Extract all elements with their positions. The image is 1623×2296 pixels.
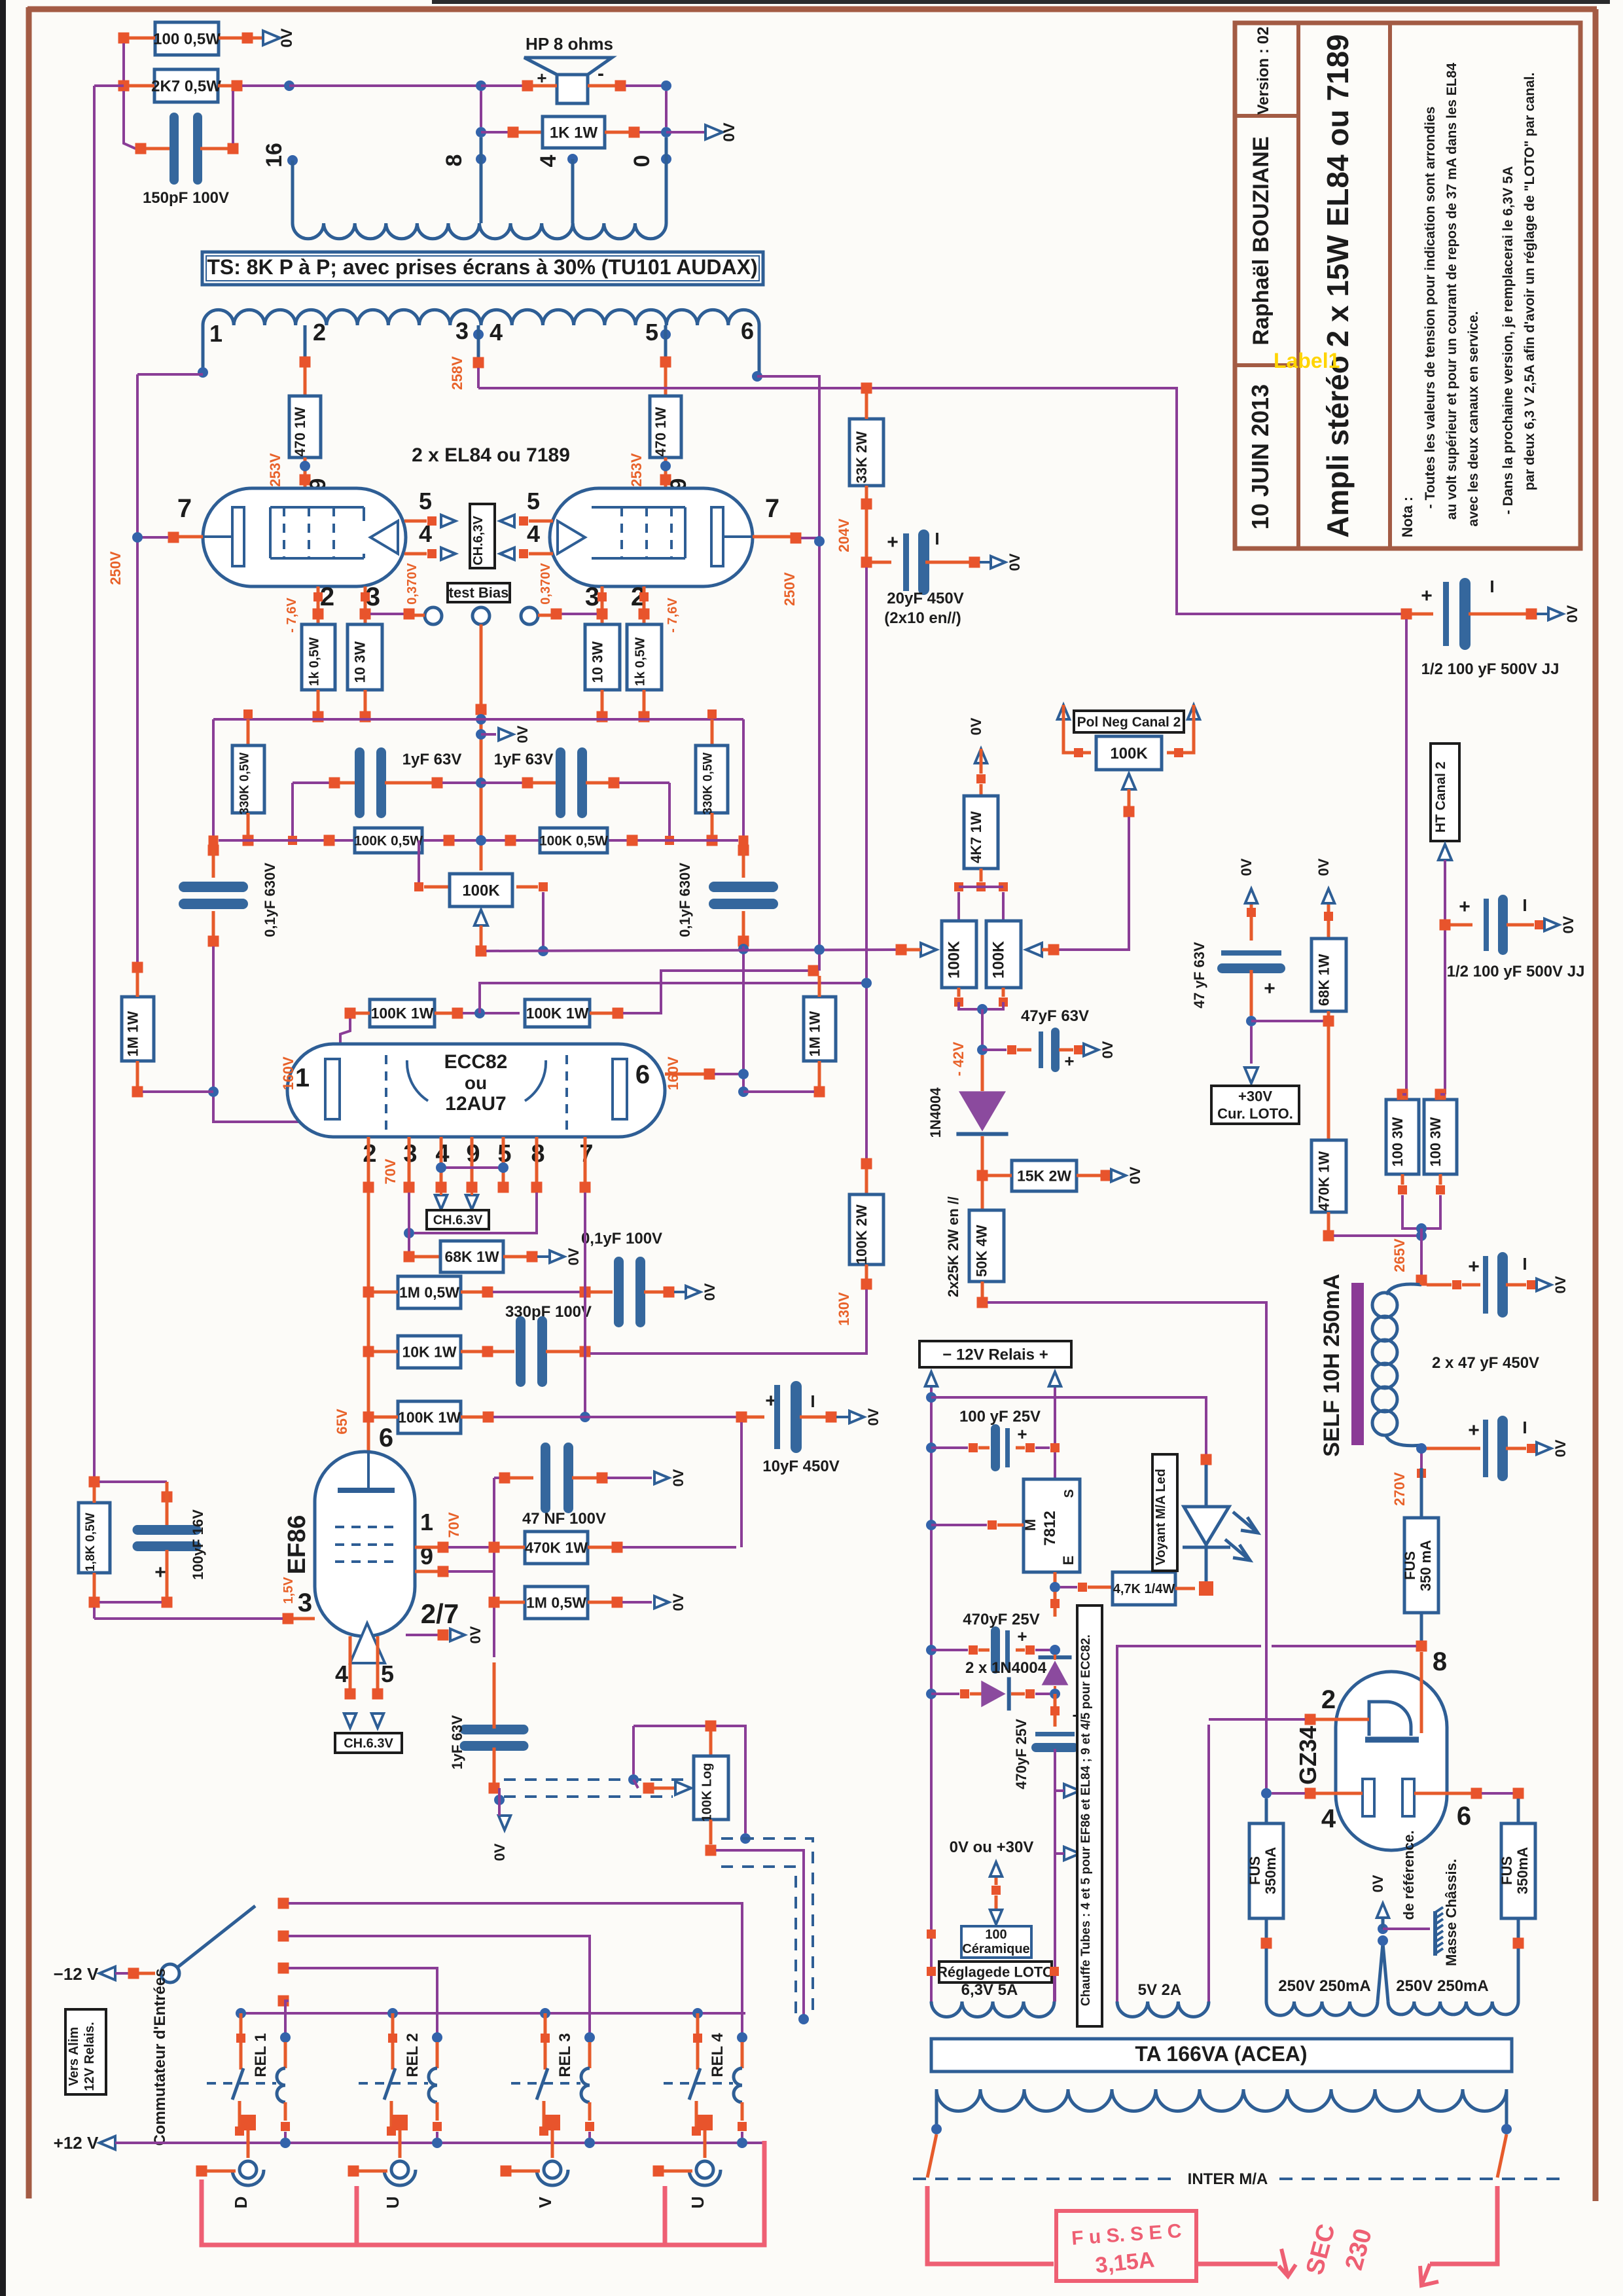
- arrow HT up: [1438, 844, 1452, 860]
- svg-text:100K: 100K: [946, 941, 963, 978]
- wire: [1327, 1026, 1330, 1140]
- wire: [415, 1546, 438, 1549]
- junction: [969, 557, 980, 568]
- node: [584, 2032, 595, 2043]
- junction: [1398, 1185, 1407, 1194]
- wire grid row: [219, 839, 738, 842]
- wire pin8 gz34: [1420, 1652, 1423, 1733]
- junction: [1050, 1967, 1059, 1976]
- node: [1416, 1443, 1427, 1454]
- wire: [747, 1416, 764, 1419]
- svg-text:0V: 0V: [670, 1469, 687, 1486]
- svg-text:1K 1W: 1K 1W: [550, 124, 598, 141]
- arrow 0V 68K: [1323, 889, 1334, 903]
- junction: [692, 2126, 701, 2136]
- wire center tap: [1378, 1943, 1383, 2001]
- wire: [709, 1731, 713, 1756]
- wire: [139, 1972, 155, 1975]
- junction: [1416, 1641, 1427, 1652]
- tube GZ34 filament a: [1363, 1779, 1374, 1816]
- junction: [278, 1996, 289, 2007]
- junction: [1471, 1788, 1482, 1799]
- wire pin7 left rail: [136, 374, 139, 967]
- wire bias center: [480, 624, 483, 870]
- junction: [313, 711, 324, 723]
- wire: [542, 892, 544, 951]
- node: [494, 1795, 505, 1805]
- wire: [801, 537, 819, 539]
- shield dashed d: [721, 1867, 796, 2015]
- pink annotation right: [1430, 2186, 1497, 2264]
- wire: [668, 783, 671, 840]
- capacitor 1yF 63V R: [556, 747, 587, 818]
- wire center tap b: [1383, 1943, 1388, 2001]
- wire: [988, 1174, 1012, 1177]
- svg-text:68K 1W: 68K 1W: [1316, 954, 1332, 1006]
- wire 5V left rail: [1116, 1645, 1118, 2001]
- wire: [836, 1416, 848, 1418]
- svg-text:1M 1W: 1M 1W: [807, 1011, 823, 1057]
- svg-text:1k 0,5W: 1k 0,5W: [633, 637, 648, 687]
- svg-text:5: 5: [381, 1660, 394, 1687]
- wire: [129, 84, 154, 88]
- wire heater dc rail: [1054, 1749, 1056, 2001]
- wire: [562, 613, 597, 615]
- svg-text:100 0,5W: 100 0,5W: [153, 30, 221, 48]
- junction: [162, 1597, 173, 1608]
- junction: [969, 1645, 978, 1655]
- resistor 1,8K 0,5W: [79, 1503, 110, 1573]
- tube ECC82 plate left: [325, 1059, 340, 1119]
- capacitor 20yF 450V: [903, 529, 929, 595]
- svg-text:258V: 258V: [449, 356, 465, 390]
- junction: [1401, 609, 1412, 620]
- junction: [240, 2115, 256, 2130]
- tube ECC82 grid left: [385, 1055, 387, 1132]
- wire: [997, 1524, 1024, 1527]
- svg-text:2K7 0,5W: 2K7 0,5W: [151, 77, 221, 95]
- junction: [208, 845, 219, 856]
- junction: [519, 549, 528, 558]
- wire 470K to 10yF rail: [622, 1546, 736, 1549]
- arrow to heaters 2: [1064, 1847, 1080, 1860]
- svg-text:350mA: 350mA: [1514, 1847, 1531, 1894]
- wire relay top bus: [241, 2012, 745, 2015]
- svg-text:−12 V: −12 V: [54, 1964, 99, 1984]
- wire: [695, 2101, 698, 2127]
- resistor 50K 4W: [969, 1210, 1004, 1282]
- node: [300, 461, 310, 471]
- arrow into pot left: [921, 943, 936, 956]
- input jack 4: [689, 2161, 721, 2185]
- transformer TS label box: [202, 252, 763, 285]
- wire: [906, 948, 921, 952]
- svg-text:Vers Alim: Vers Alim: [67, 2027, 81, 2086]
- wire: [588, 84, 615, 88]
- svg-text:Label1: Label1: [1274, 349, 1340, 372]
- junction: [629, 127, 640, 138]
- wire 12V right rail: [1054, 1388, 1056, 1479]
- wire: [1060, 1586, 1077, 1588]
- wire: [601, 586, 604, 624]
- wire: [664, 367, 668, 396]
- wire: [480, 925, 483, 946]
- svg-text:0V: 0V: [278, 28, 296, 47]
- wire: [1088, 1586, 1113, 1589]
- junction: [329, 778, 340, 789]
- junction: [89, 1477, 100, 1488]
- junction: [1199, 1581, 1213, 1596]
- wire relay coil 4: [741, 2042, 744, 2068]
- wire: [436, 2132, 438, 2138]
- svg-text:7: 7: [177, 494, 192, 523]
- label box Reglage LOTO: [937, 1962, 1054, 1982]
- node: [198, 367, 208, 378]
- svg-text:100 3W: 100 3W: [1389, 1117, 1406, 1167]
- wire relay switch 1: [240, 2013, 243, 2070]
- label box CH.6,3V ecc82: [427, 1210, 489, 1229]
- junction: [404, 1182, 415, 1193]
- junction: [1048, 944, 1060, 956]
- wire: [980, 869, 983, 882]
- svg-text:+: +: [1421, 585, 1433, 607]
- label SEC 230: [1301, 2221, 1378, 2278]
- wire: [742, 911, 745, 936]
- svg-text:1N4004: 1N4004: [927, 1087, 944, 1138]
- wire: [1035, 1693, 1050, 1695]
- junction: [660, 357, 671, 368]
- wire: [1011, 1693, 1025, 1696]
- wire: [588, 1601, 612, 1604]
- junction: [1007, 1045, 1016, 1054]
- junction: [476, 704, 487, 715]
- arrow heater: [344, 1713, 356, 1728]
- node: [236, 2008, 246, 2018]
- node: [498, 1162, 508, 1173]
- wire: [304, 367, 307, 396]
- junction: [278, 1963, 289, 1974]
- wire ecc82 pin: [367, 1137, 370, 1182]
- winding 250V b: [1388, 2001, 1518, 2015]
- wire relay switch 4: [696, 2013, 700, 2070]
- junction: [1513, 1938, 1524, 1949]
- wire: [414, 1255, 440, 1259]
- label box Voyant M/A Led: [1152, 1454, 1177, 1571]
- junction: [1535, 920, 1544, 929]
- speaker HP: [524, 58, 612, 103]
- wire: [440, 1193, 442, 1195]
- wire: [124, 91, 135, 149]
- wire: [1401, 1094, 1404, 1100]
- wire 12V left rail: [930, 1388, 933, 2001]
- svg-text:I: I: [935, 529, 939, 548]
- junction: [363, 1287, 374, 1298]
- wire: [461, 1416, 483, 1419]
- wire: [865, 393, 868, 419]
- svg-text:+: +: [1064, 1051, 1074, 1071]
- wire input 1: [285, 2001, 289, 2037]
- junction: [609, 778, 620, 789]
- wire: [533, 84, 557, 88]
- svg-text:Masse Châssis.: Masse Châssis.: [1443, 1859, 1459, 1966]
- resistor 1k 0,5W R: [627, 624, 662, 690]
- dashed INTER M/A b: [1279, 2178, 1565, 2180]
- wire bias row: [486, 950, 896, 951]
- node: [476, 127, 486, 137]
- junction: [739, 836, 749, 846]
- resistor 100K 2W: [849, 1194, 883, 1265]
- wire terminal 8: [480, 137, 483, 223]
- junction: [427, 516, 437, 526]
- wire: [518, 131, 543, 134]
- resistor 10 3W R: [585, 624, 620, 690]
- node: [737, 2138, 747, 2148]
- junction: [1174, 748, 1183, 757]
- svg-text:SELF 10H 250mA: SELF 10H 250mA: [1319, 1274, 1344, 1457]
- resistor 1M 1W left: [122, 997, 154, 1061]
- wire pot top loop: [633, 1725, 705, 1727]
- node: [738, 1086, 749, 1097]
- svg-text:204V: 204V: [836, 518, 852, 552]
- svg-text:CH.6.3V: CH.6.3V: [344, 1736, 393, 1751]
- arrow up ref: [990, 1862, 1002, 1876]
- svg-text:350mA: 350mA: [1262, 1847, 1279, 1894]
- wire: [499, 1601, 525, 1604]
- bias jack 2: [473, 607, 490, 624]
- junction: [209, 836, 219, 846]
- junction: [438, 1630, 449, 1641]
- wire: [1054, 1686, 1056, 1689]
- junction: [551, 609, 562, 620]
- tube GZ34 filament b: [1402, 1779, 1414, 1816]
- wire: [588, 1546, 612, 1549]
- junction: [612, 1542, 623, 1553]
- resistor 1k 0,5W L: [302, 624, 335, 690]
- junction: [999, 997, 1008, 1007]
- junction: [1417, 1469, 1426, 1478]
- node: [798, 2014, 809, 2024]
- resistor 100K 1W a: [370, 999, 435, 1027]
- svg-text:- 7,6V: - 7,6V: [666, 598, 680, 633]
- node: [474, 1008, 485, 1018]
- junction: [281, 2122, 290, 2131]
- wire: [1382, 1919, 1385, 1929]
- arrow heater: [500, 548, 514, 560]
- capacitor 100yF 25V: [991, 1424, 1010, 1471]
- svg-text:0V: 0V: [1238, 858, 1255, 876]
- wire: [1250, 905, 1253, 941]
- junction: [585, 2122, 594, 2131]
- junction: [522, 778, 533, 789]
- wire 5V right rail: [1207, 1725, 1210, 2001]
- junction: [372, 1689, 383, 1700]
- svg-text:1/2 100 yF 500V JJ: 1/2 100 yF 500V JJ: [1447, 963, 1585, 980]
- wire feedback left vertical: [93, 86, 96, 1482]
- node: [814, 944, 825, 955]
- svg-text:5V 2A: 5V 2A: [1138, 1981, 1182, 1999]
- node: [580, 1412, 590, 1422]
- svg-text:0V: 0V: [1315, 858, 1332, 876]
- arrow 0V: [705, 125, 722, 139]
- wire: [349, 1636, 352, 1689]
- regulator 7812: [1022, 1479, 1080, 1572]
- wire: [293, 1617, 315, 1621]
- wire: [674, 1291, 685, 1293]
- potentiometer 100K bias: [450, 874, 512, 906]
- wire ecc82 pin: [502, 1137, 505, 1182]
- wire: [284, 2132, 287, 2138]
- junction: [539, 882, 548, 891]
- svg-text:0V: 0V: [565, 1247, 582, 1265]
- resistor 470 1W t2: [289, 396, 321, 457]
- input jack 2: [384, 2161, 416, 2185]
- arrow 0V: [686, 1286, 700, 1298]
- wire: [1327, 1011, 1330, 1016]
- svg-text:+: +: [887, 531, 899, 553]
- wire: [931, 1446, 968, 1449]
- resistor 4K7 1W: [964, 796, 998, 869]
- label box Chauffe Tubes: [1077, 1605, 1102, 2026]
- tube EF86 anode lead: [367, 1452, 370, 1490]
- svg-text:70V: 70V: [446, 1512, 462, 1537]
- node: [738, 1069, 749, 1079]
- junction: [991, 1886, 1001, 1895]
- wire: [498, 1788, 501, 1816]
- svg-text:6,3V 5A: 6,3V 5A: [961, 1981, 1018, 1999]
- svg-text:Version : 02: Version : 02: [1255, 27, 1272, 115]
- junction: [360, 609, 371, 620]
- svg-text:0V: 0V: [1564, 605, 1580, 622]
- junction: [707, 835, 718, 846]
- arrow 0V: [263, 31, 280, 45]
- wire: [978, 1649, 990, 1652]
- wire pot bottom: [716, 1850, 804, 2019]
- wire: [212, 719, 215, 845]
- node: [404, 1228, 414, 1238]
- relay coil 1: [277, 2068, 285, 2102]
- wire: [238, 2101, 241, 2127]
- potentiometer 100K Log: [694, 1756, 728, 1822]
- junction: [977, 1170, 988, 1181]
- wire: [253, 37, 264, 40]
- wire: [503, 1255, 527, 1259]
- wire: [995, 1878, 998, 1885]
- wire: [1063, 705, 1091, 753]
- wire: [137, 536, 168, 539]
- wire: [1327, 905, 1330, 939]
- choke core bar: [1351, 1283, 1364, 1445]
- pink stub 1: [355, 2186, 359, 2244]
- junction: [1324, 912, 1333, 921]
- svg-text:0V: 0V: [1552, 1276, 1569, 1293]
- svg-text:1: 1: [295, 1064, 310, 1092]
- junction: [580, 1182, 591, 1193]
- svg-text:100K: 100K: [462, 882, 500, 899]
- junction: [653, 2166, 664, 2177]
- junction: [954, 997, 963, 1007]
- wire: [493, 1748, 496, 1783]
- wire: [1272, 1792, 1305, 1795]
- junction: [1050, 1706, 1060, 1715]
- relay switch lever 3: [537, 2068, 548, 2100]
- label box CH.6,3V: [470, 504, 495, 568]
- junction: [660, 475, 671, 486]
- resistor 2K7 0,5W: [151, 69, 221, 102]
- svg-text:EF86: EF86: [283, 1515, 311, 1575]
- wire: [317, 586, 320, 624]
- junction: [1323, 1016, 1334, 1027]
- capacitor 47 yF 63V: [1217, 950, 1285, 973]
- junction: [283, 1613, 294, 1624]
- wire: [1401, 1174, 1404, 1185]
- svg-text:330K 0,5W: 330K 0,5W: [702, 753, 715, 815]
- dashed INTER M/A a: [913, 2178, 1178, 2180]
- wire: [1055, 1852, 1064, 1855]
- resistor 100 3W b: [1424, 1100, 1457, 1174]
- junction: [705, 1721, 717, 1732]
- relay switch lever 4: [689, 2068, 700, 2100]
- transformer TA 166VA label: [931, 2039, 1512, 2072]
- shield dashed c: [721, 1839, 813, 2019]
- wire: [370, 613, 404, 615]
- svg-text:100K 2W: 100K 2W: [853, 1204, 870, 1265]
- svg-text:1k 0,5W: 1k 0,5W: [308, 637, 322, 687]
- junction: [808, 965, 819, 977]
- svg-text:6: 6: [379, 1424, 393, 1452]
- wire terminal 4: [571, 159, 575, 223]
- wire B+ ecc82: [480, 983, 866, 1013]
- svg-text:2 x 47 yF 450V: 2 x 47 yF 450V: [1432, 1354, 1539, 1372]
- wire relay coil 1: [284, 2042, 287, 2068]
- wire: [166, 1482, 169, 1525]
- junction: [433, 2122, 442, 2131]
- svg-text:4: 4: [335, 1660, 348, 1687]
- junction: [232, 81, 243, 92]
- wire: [1517, 1799, 1520, 1823]
- junction: [432, 778, 443, 789]
- wire: [404, 552, 427, 556]
- wire: [1334, 1234, 1421, 1237]
- wire: [1327, 1212, 1330, 1230]
- resistor 100K 0,5W L: [354, 828, 423, 853]
- arrow 12V plus: [1049, 1372, 1061, 1386]
- svg-text:350 mA: 350 mA: [1418, 1540, 1434, 1591]
- svg-text:+12 V: +12 V: [54, 2133, 99, 2153]
- junction: [168, 532, 179, 543]
- junction: [288, 836, 297, 845]
- arrow 0V: [991, 556, 1005, 568]
- potentiometer 100K ch2: [986, 921, 1021, 988]
- junction: [580, 1287, 591, 1298]
- wire: [461, 1291, 482, 1294]
- svg-text:TA 166VA (ACEA): TA 166VA (ACEA): [1135, 2042, 1307, 2066]
- arrow 0V ref: [1377, 1903, 1389, 1918]
- svg-text:47 yF 63V: 47 yF 63V: [1191, 942, 1207, 1009]
- wire: [471, 1193, 473, 1195]
- svg-text:0,1yF 630V: 0,1yF 630V: [262, 863, 278, 937]
- junction: [639, 592, 649, 601]
- ground masse chassis: [1435, 1907, 1443, 1956]
- arrow 0V: [1537, 1279, 1551, 1291]
- node: [628, 1774, 639, 1785]
- tube EF86 anode: [338, 1488, 395, 1493]
- wire: [143, 1090, 213, 1093]
- junction: [1527, 1444, 1536, 1453]
- junction: [278, 1931, 289, 1942]
- wire: [1059, 1049, 1073, 1052]
- wire GZ34 top link: [1117, 1645, 1261, 1647]
- title block frame: [1235, 23, 1580, 548]
